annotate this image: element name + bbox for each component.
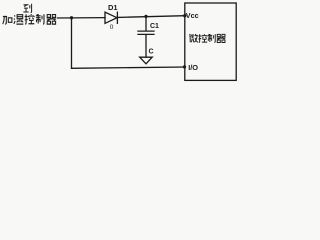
svg-text:0: 0 <box>110 24 114 31</box>
text 到 (to) <box>23 4 31 13</box>
svg-text:I/O: I/O <box>188 63 198 72</box>
微 <box>189 34 198 42</box>
node C1 junction <box>144 15 147 18</box>
器 <box>47 15 56 25</box>
控 <box>25 14 35 24</box>
node Vcc junction <box>183 14 186 17</box>
wire cap to ground <box>145 35 147 57</box>
text 微控制器 (microcontroller) <box>189 34 225 42</box>
node junction top-left <box>70 16 73 19</box>
制 <box>208 34 216 42</box>
wire top-left horizontal <box>58 17 106 19</box>
控 <box>198 34 207 42</box>
text 加湿控制器 (humidifier controller) <box>3 14 56 24</box>
node I/O junction <box>183 65 186 68</box>
svg-text:C: C <box>149 49 154 56</box>
wire C1 branch down <box>145 16 147 30</box>
器 <box>217 34 226 42</box>
wire diode to Vcc <box>118 16 185 18</box>
湿 <box>14 15 23 24</box>
ground <box>140 57 153 64</box>
加 <box>3 16 12 24</box>
wire vertical left <box>71 18 73 69</box>
diode D1 <box>105 12 117 23</box>
svg-text:D1: D1 <box>108 3 118 12</box>
microcontroller box U1 <box>185 3 236 80</box>
制 <box>36 14 44 24</box>
svg-text:Vcc: Vcc <box>186 11 199 20</box>
svg-text:C1: C1 <box>150 23 159 30</box>
wire bottom horizontal <box>72 67 185 68</box>
capacitor C1 <box>138 31 154 34</box>
